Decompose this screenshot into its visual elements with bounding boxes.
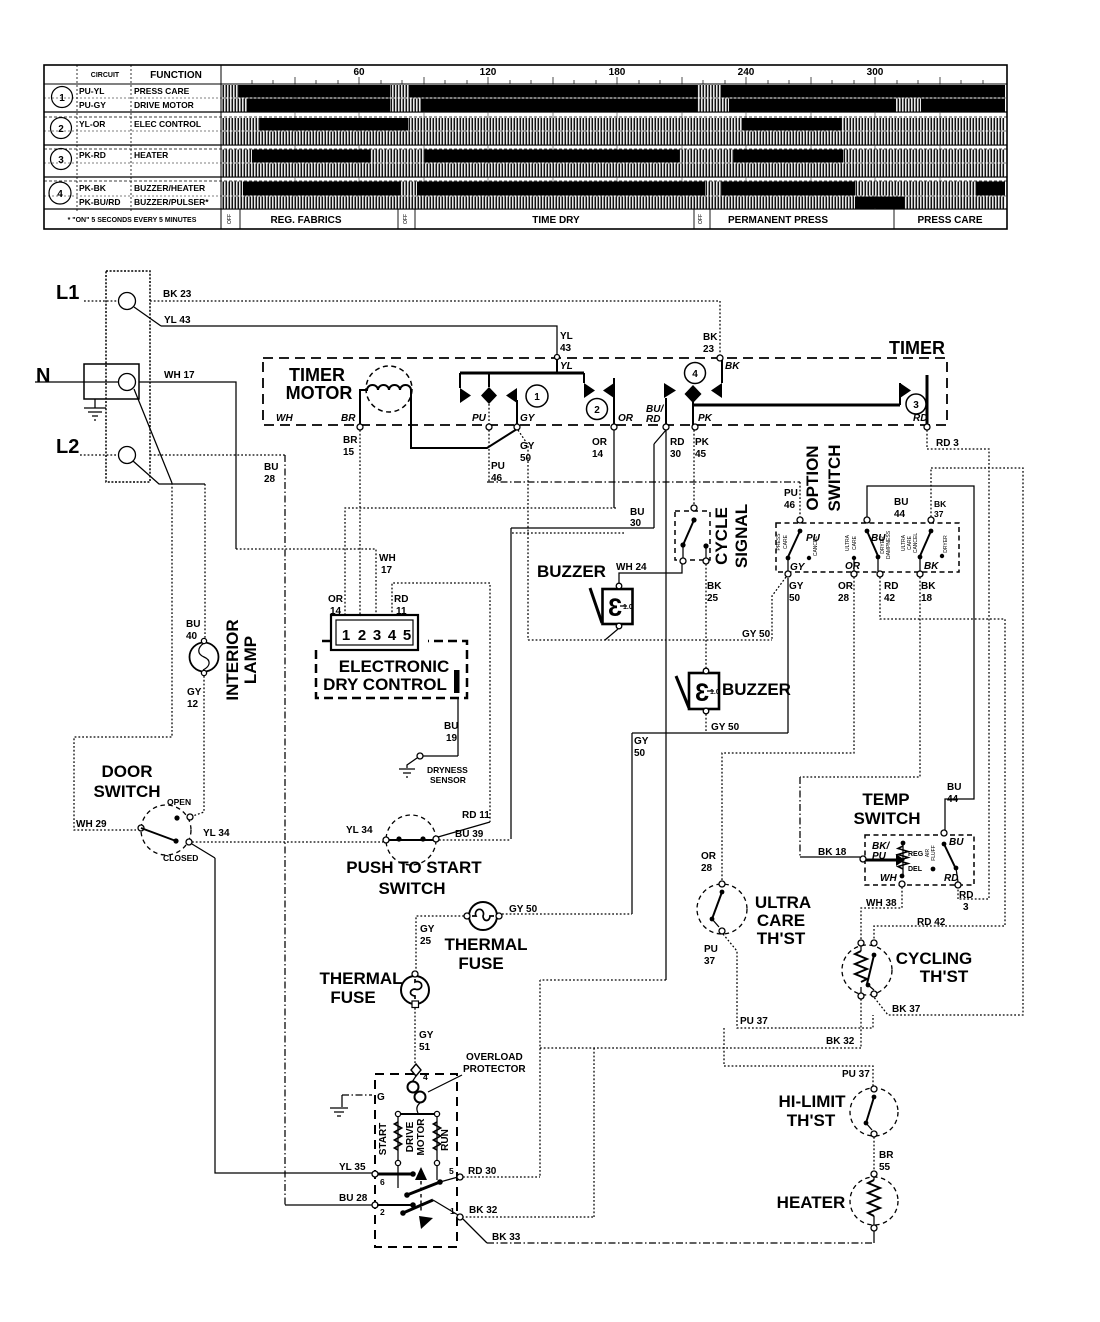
svg-text:PU: PU [784,488,798,499]
ground at neutral [84,399,106,420]
wire WH 38 [861,887,902,940]
svg-text:BUZZER: BUZZER [722,680,791,699]
wire PK 45 [693,430,695,506]
svg-text:2: 2 [58,124,64,135]
buzzer 2 [676,668,720,714]
svg-text:45: 45 [695,449,707,460]
wire BU 44 [867,486,974,831]
row6 hatched band [222,164,1005,177]
neutral box [84,364,139,399]
svg-text:46: 46 [784,500,796,511]
svg-text:PU 37: PU 37 [842,1069,870,1080]
svg-text:BK: BK [703,332,718,343]
option switch bottom labels [789,581,936,604]
wire GY50 diag from option switch [772,577,786,640]
svg-text:BK: BK [921,581,936,592]
svg-text:CYCLE: CYCLE [712,507,731,565]
dry control connector [331,615,418,650]
svg-text:YL 34: YL 34 [203,828,230,839]
svg-text:50: 50 [634,748,646,759]
svg-text:30: 30 [630,518,642,529]
svg-text:BK: BK [924,561,939,572]
dryness sensor [399,753,468,785]
svg-text:LAMP: LAMP [241,636,260,684]
temp switch BU contact [941,830,964,888]
svg-text:4: 4 [388,627,397,644]
terminal L2 [119,447,136,464]
svg-text:PK-RD: PK-RD [79,150,106,160]
chart bottom band dividers [240,209,894,229]
timer inside terminal names [276,413,536,424]
svg-text:GY: GY [420,924,435,935]
svg-text:SWITCH: SWITCH [825,444,844,511]
svg-text:43: 43 [560,343,572,354]
wire RD 3 [927,430,989,899]
svg-text:2: 2 [594,405,600,416]
svg-text:44: 44 [894,509,906,520]
svg-text:N: N [36,365,50,387]
wire WH 17 [139,382,236,549]
wire BU 28 to motor [285,1204,372,1206]
svg-text:PRESS: PRESS [776,533,782,551]
svg-text:RD: RD [394,594,408,605]
svg-text:HI-LIMIT: HI-LIMIT [778,1092,846,1111]
svg-text:MOTOR: MOTOR [416,1118,427,1156]
svg-text:BUZZER/PULSER*: BUZZER/PULSER* [134,197,209,207]
svg-text:WH 29: WH 29 [76,819,107,830]
svg-text:THERMAL: THERMAL [319,969,402,988]
wire BK 37 [873,468,1023,1015]
svg-text:BK: BK [725,361,740,372]
svg-text:BR: BR [341,413,356,424]
cycling thermostat [842,940,892,999]
interior lamp [190,638,219,675]
wire RD 11 from pin 4 [392,583,490,822]
wire BU 30 [511,430,666,839]
row1 PRESS CARE bars [222,85,1005,98]
overload protector [408,1076,426,1113]
svg-text:RUN: RUN [440,1129,451,1151]
wire GY 12 [190,676,204,817]
svg-text:REG: REG [908,851,924,858]
L1 lead stub [84,300,118,302]
timer wire number labels [343,331,959,484]
svg-text:BK 33: BK 33 [492,1232,521,1243]
svg-text:PU-GY: PU-GY [79,100,106,110]
svg-text:1: 1 [59,93,65,104]
svg-text:12: 12 [187,699,199,710]
L2 lead stub [80,454,118,456]
svg-text:WH 24: WH 24 [616,562,647,573]
svg-text:BU 28: BU 28 [339,1193,368,1204]
svg-text:OR: OR [592,437,608,448]
motor terminals [372,1171,378,1177]
svg-text:BUZZER/HEATER: BUZZER/HEATER [134,183,205,193]
svg-text:YL: YL [560,331,573,342]
chart row labels [79,86,209,207]
svg-text:OVERLOAD: OVERLOAD [466,1052,523,1063]
wire YL 35 [215,858,372,1173]
wire BK 25 [705,564,707,668]
svg-text:28: 28 [701,863,713,874]
wire PU 46 [488,430,490,482]
svg-text:CIRCUIT: CIRCUIT [91,72,120,79]
svg-text:WH: WH [880,873,897,884]
svg-text:TIMER: TIMER [289,365,345,385]
svg-text:DRIVE: DRIVE [405,1121,416,1152]
svg-text:17: 17 [381,565,393,576]
svg-text:BK: BK [707,581,722,592]
wire BU 19 [457,697,459,756]
svg-text:FLUFF: FLUFF [931,845,937,861]
svg-text:BK 32: BK 32 [826,1036,855,1047]
svg-text:BK 18: BK 18 [818,847,847,858]
svg-text:4: 4 [692,369,698,380]
row3 ELEC CONTROL bars [222,118,1005,131]
svg-text:5: 5 [449,1166,454,1176]
svg-text:RD 30: RD 30 [468,1166,497,1177]
option switch box [776,523,959,572]
svg-text:PU: PU [872,851,887,862]
svg-text:2: 2 [358,627,366,644]
svg-text:PU-YL: PU-YL [79,86,105,96]
svg-text:OR: OR [838,581,854,592]
svg-text:DRYER: DRYER [943,535,949,553]
motor windings [395,1111,441,1165]
svg-text:25: 25 [707,593,719,604]
svg-text:4: 4 [423,1072,428,1082]
svg-text:WH 38: WH 38 [866,898,897,909]
option unit 2 [845,517,892,577]
svg-text:OPTION: OPTION [803,445,822,510]
wire GY 50 buzzer2 [705,714,707,733]
svg-text:PUSH TO START: PUSH TO START [346,858,482,877]
svg-text:RD 11: RD 11 [462,810,490,821]
wire OR 28 [722,577,854,880]
wire WH29 left riser [74,483,172,830]
svg-text:ELEC CONTROL: ELEC CONTROL [134,119,201,129]
svg-text:* "ON" 5 SECONDS EVERY 5 MINUT: * "ON" 5 SECONDS EVERY 5 MINUTES [68,217,197,224]
svg-text:2: 2 [380,1207,385,1217]
svg-text:YL 43: YL 43 [164,315,191,326]
wire BR 55 [873,1137,875,1171]
svg-text:6: 6 [380,1177,385,1187]
svg-text:3: 3 [963,902,969,913]
svg-text:G: G [377,1092,385,1103]
temp switch center selector [880,841,937,887]
svg-text:THERMAL: THERMAL [444,935,527,954]
wire BK 32 [462,999,861,1217]
timer contact 1 [460,357,584,427]
svg-text:TIMER: TIMER [889,338,945,358]
wire BK 23 riser into timer [719,301,721,355]
svg-text:PK: PK [698,413,713,424]
door switch [138,797,198,863]
svg-text:PU: PU [472,413,487,424]
svg-text:L2: L2 [56,436,79,458]
svg-text:DOOR: DOOR [102,762,153,781]
timer contact 3 [693,375,927,427]
svg-text:GY: GY [634,736,649,747]
svg-text:FUSE: FUSE [330,988,375,1007]
svg-text:RD: RD [670,437,684,448]
wire GY 50 main riser [518,430,528,640]
svg-text:37: 37 [934,509,944,519]
wire PU 37 [723,934,873,1086]
thermal fuse 1 [464,902,502,930]
svg-text:3: 3 [373,627,381,644]
svg-text:INTERIOR: INTERIOR [223,619,242,700]
svg-text:YL-OR: YL-OR [79,119,105,129]
svg-text:50: 50 [789,593,801,604]
svg-text:3: 3 [608,594,622,622]
motor box [375,1074,457,1247]
push to start switch [383,815,439,865]
svg-text:SWITCH: SWITCH [93,782,160,801]
svg-text:BU: BU [630,507,644,518]
svg-text:DRYNESS: DRYNESS [427,765,468,775]
svg-text:RD 3: RD 3 [936,438,959,449]
svg-text:YL 34: YL 34 [346,825,373,836]
wire BK 23 [150,300,718,302]
wire lamp riser BU40 [204,484,206,642]
svg-text:CLOSED: CLOSED [163,853,198,863]
svg-text:GY: GY [520,413,536,424]
row7 BUZZER/HEATER bars [222,182,1005,196]
wire BK 18 [800,577,920,777]
row5 HEATER bars [222,150,1005,163]
svg-text:4: 4 [57,189,63,200]
svg-text:OFF: OFF [698,214,704,224]
svg-text:TH'ST: TH'ST [787,1111,836,1130]
motor ground [342,1094,372,1096]
svg-text:19: 19 [446,733,458,744]
svg-text:23: 23 [703,344,715,355]
svg-text:OFF: OFF [227,214,233,224]
svg-text:ULTRA: ULTRA [845,534,851,551]
svg-text:1.0: 1.0 [710,689,720,696]
row4 hatched band [222,132,1005,145]
svg-text:GY: GY [790,562,806,573]
svg-text:BK: BK [934,499,947,509]
svg-text:25: 25 [420,936,432,947]
svg-text:3: 3 [58,155,64,166]
svg-text:PU: PU [704,944,718,955]
svg-text:PERMANENT PRESS: PERMANENT PRESS [728,215,828,226]
svg-text:BK 32: BK 32 [469,1205,498,1216]
svg-text:SENSOR: SENSOR [430,775,466,785]
buzzer enclosure fragments [512,532,624,534]
svg-text:RD: RD [944,873,958,884]
svg-text:PU 37: PU 37 [740,1016,768,1027]
motor lower switch [377,1200,458,1229]
timer motor coil [366,366,412,412]
svg-text:DRY CONTROL: DRY CONTROL [323,675,447,694]
svg-text:120: 120 [480,67,497,78]
svg-text:FUSE: FUSE [458,954,503,973]
wire BK 33 [463,1219,487,1243]
wire GY 51 [414,1008,416,1066]
ultra care thermostat [697,881,747,934]
svg-text:DEL: DEL [908,866,923,873]
svg-text:BUZZER: BUZZER [537,562,606,581]
temp switch BK18 contact [860,841,905,866]
svg-text:REG. FABRICS: REG. FABRICS [270,215,341,226]
timer contact 4 [646,358,740,427]
option unit 3 [901,517,949,577]
svg-text:BR: BR [879,1150,894,1161]
svg-text:50: 50 [520,453,532,464]
terminal block [106,271,150,482]
row8 BUZZER/PULSER bars [222,197,1005,209]
svg-text:PU: PU [491,461,505,472]
svg-text:GY: GY [419,1030,434,1041]
svg-text:28: 28 [838,593,850,604]
svg-text:240: 240 [738,67,755,78]
svg-text:1.0: 1.0 [623,604,633,611]
svg-text:WH: WH [379,553,396,564]
svg-text:PK-BK: PK-BK [79,183,107,193]
svg-text:FUNCTION: FUNCTION [150,70,202,81]
svg-text:TH'ST: TH'ST [920,967,969,986]
timer contact 2 [584,373,634,427]
svg-text:44: 44 [947,794,959,805]
svg-text:14: 14 [592,449,604,460]
wire BU 39 [439,839,510,841]
svg-text:CARE: CARE [757,911,805,930]
svg-text:RD: RD [913,413,927,424]
chart header labels [91,67,884,81]
svg-text:55: 55 [879,1162,891,1173]
svg-text:CARE: CARE [852,535,858,550]
dry control box [316,641,467,698]
wire WH 17 to pin 3 [236,549,376,616]
svg-text:TH'ST: TH'ST [757,929,806,948]
svg-text:PRESS CARE: PRESS CARE [917,215,982,226]
svg-text:BR: BR [343,435,358,446]
wire RD 30 to motor [463,1176,540,1178]
timer terminals [357,355,930,431]
svg-text:40: 40 [186,631,198,642]
svg-text:BK 23: BK 23 [163,289,192,300]
chart tick marks [252,77,983,84]
motor terminal 4 [411,1064,421,1076]
wire GY 50 branch [528,639,772,641]
svg-text:TIME DRY: TIME DRY [532,215,580,226]
timing chart frame [44,65,1007,229]
terminal L1 [119,293,136,310]
row2 DRIVE MOTOR bars [222,99,1005,112]
svg-text:30: 30 [670,449,682,460]
svg-text:TEMP: TEMP [862,790,909,809]
option unit 1 [776,517,821,577]
svg-text:SWITCH: SWITCH [853,809,920,828]
svg-text:CANCEL: CANCEL [913,533,919,554]
wire RD 11 diag [438,822,490,837]
svg-text:ULTRA: ULTRA [755,893,811,912]
heater [850,1171,898,1243]
wire L2 / BU 28 riser [150,454,285,456]
svg-text:CARE: CARE [783,534,789,549]
wire YL 43 [134,307,161,326]
svg-text:HEATER: HEATER [134,150,168,160]
svg-text:MOTOR: MOTOR [286,383,353,403]
svg-text:1: 1 [534,392,540,403]
temp switch box [865,835,974,885]
svg-text:3: 3 [913,400,919,411]
wire N to door switch [134,389,172,483]
wire L2 to lamp [133,461,205,484]
svg-text:37: 37 [704,956,716,967]
svg-text:L1: L1 [56,282,79,304]
wire GY 25 [416,916,464,972]
timer box [263,358,947,425]
svg-text:BU: BU [264,462,278,473]
svg-text:BK 37: BK 37 [892,1004,921,1015]
svg-text:OR: OR [845,561,861,572]
svg-text:BU: BU [186,619,200,630]
svg-text:WH: WH [276,413,293,424]
svg-text:HEATER: HEATER [777,1193,846,1212]
chart grid verticals [295,84,940,209]
circled group numbers [49,87,73,205]
svg-text:42: 42 [884,593,896,604]
svg-text:RD: RD [959,890,973,901]
svg-text:OR: OR [328,594,344,605]
N lead [35,381,118,383]
svg-text:DAMPNESS: DAMPNESS [886,530,892,559]
svg-text:RD: RD [646,414,660,425]
motor start switch [377,1165,458,1211]
svg-text:YL: YL [560,361,573,372]
svg-text:GY: GY [789,581,804,592]
svg-text:28: 28 [264,474,276,485]
svg-text:WH 17: WH 17 [164,370,195,381]
svg-text:BU: BU [894,497,908,508]
svg-text:BU 39: BU 39 [455,829,484,840]
svg-text:CYCLING: CYCLING [896,949,973,968]
wire BR 15 to pin 2 [359,430,361,616]
svg-text:OFF: OFF [403,214,409,224]
svg-text:BU: BU [949,837,964,848]
wire GY50 fuse to riser [502,913,632,915]
hi-limit thermostat [850,1086,898,1137]
svg-text:SIGNAL: SIGNAL [732,504,751,568]
wire BR15 lower [359,615,361,617]
svg-text:SWITCH: SWITCH [378,879,445,898]
svg-text:GY 50: GY 50 [509,904,538,915]
wire WH 24 [619,562,682,583]
wire RD 30 [665,430,667,980]
svg-text:PROTECTOR: PROTECTOR [463,1064,526,1075]
cycle signal switch [675,505,710,564]
terminal N [119,374,136,391]
thermal fuse 2 [401,971,429,1008]
svg-text:1: 1 [342,627,350,644]
svg-text:180: 180 [609,67,626,78]
wire YL 34 [192,841,383,843]
svg-text:YL 35: YL 35 [339,1162,366,1173]
svg-text:ELECTRONIC: ELECTRONIC [339,657,450,676]
buzzer 1 [590,583,633,629]
svg-text:BU: BU [444,721,458,732]
wire RD 42 [874,577,1005,940]
svg-text:15: 15 [343,447,355,458]
svg-text:3: 3 [695,679,709,707]
svg-text:PK: PK [695,437,710,448]
svg-text:RD: RD [884,581,898,592]
svg-text:60: 60 [353,67,365,78]
